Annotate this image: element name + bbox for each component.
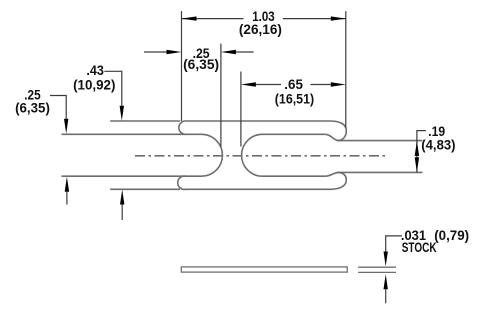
lower nose outer curve bbox=[330, 172, 346, 189]
svg-text:(26,16): (26,16) bbox=[239, 22, 282, 37]
arrowhead .19 up bbox=[415, 141, 419, 156]
right strip top edge bbox=[337, 140, 423, 142]
svg-text:.65: .65 bbox=[284, 77, 303, 92]
capsule top edge bbox=[263, 133, 326, 135]
big right-bulge arc bbox=[202, 134, 223, 176]
capsule left cap bbox=[242, 134, 263, 176]
dim line .25 top right tail bbox=[236, 51, 254, 53]
stock stub bottom bbox=[358, 271, 396, 273]
arrowhead .43 top bbox=[120, 106, 124, 121]
stock side view bbox=[181, 267, 396, 273]
svg-text:(10,92): (10,92) bbox=[73, 78, 115, 93]
centerline bbox=[135, 155, 386, 157]
leader .031 bbox=[386, 236, 402, 252]
arrowhead .65 left bbox=[241, 82, 256, 86]
arrowhead 1.03 left bbox=[182, 16, 197, 20]
upper middle edge left bbox=[62, 133, 202, 135]
part bottom outer edge left segment bbox=[110, 188, 180, 190]
extension line 1.03 left bbox=[181, 11, 183, 121]
svg-text:STOCK: STOCK bbox=[402, 240, 437, 255]
arrowhead .031 up bbox=[384, 274, 388, 289]
part top outer edge left segment bbox=[110, 120, 180, 122]
lower middle edge left bbox=[62, 175, 202, 177]
dim .19 corner bbox=[417, 131, 426, 173]
leader .25 left bbox=[50, 96, 66, 119]
svg-text:(4,83): (4,83) bbox=[421, 138, 455, 153]
stock bar bbox=[181, 267, 347, 272]
svg-text:(6,35): (6,35) bbox=[183, 57, 219, 72]
extension line .25 top right bbox=[220, 44, 222, 147]
dim line .65 bbox=[256, 84, 331, 86]
extension line 1.03/.65 right bbox=[345, 11, 347, 128]
arrowhead .19 down bbox=[415, 157, 419, 172]
dim line 1.03 bbox=[182, 18, 346, 20]
lower inner swoosh bbox=[325, 172, 339, 176]
capsule bottom edge bbox=[263, 175, 326, 177]
part bottom outer edge right segment bbox=[186, 188, 331, 190]
svg-text:.43: .43 bbox=[86, 63, 104, 78]
arrowhead .43 bottom bbox=[120, 190, 124, 205]
left fold cap bottom bbox=[178, 176, 186, 189]
arrowhead 1.03 right bbox=[331, 16, 346, 20]
arrowhead .65 right bbox=[331, 82, 346, 86]
arrowhead .031 down bbox=[384, 252, 388, 267]
arrowhead .25 left bottom bbox=[65, 177, 69, 192]
extension line .65 left bbox=[240, 72, 242, 147]
leader .031 bottom tail bbox=[385, 289, 387, 303]
upper inner swoosh bbox=[325, 134, 339, 140]
svg-text:(6,35): (6,35) bbox=[15, 101, 50, 116]
leader .25 left bottom tail bbox=[66, 192, 68, 205]
leader .43 bbox=[104, 71, 122, 106]
leader .43 bottom tail bbox=[121, 205, 123, 221]
arrowhead .25 top right bbox=[221, 50, 236, 54]
part top outer edge right segment bbox=[186, 120, 331, 122]
arrowhead .25 left top bbox=[64, 119, 68, 134]
dim line .25 top left tail bbox=[144, 51, 167, 53]
upper nose outer curve bbox=[330, 121, 346, 141]
right strip bottom edge bbox=[337, 171, 423, 173]
svg-text:(0,79): (0,79) bbox=[434, 228, 469, 243]
arrowhead .25 top left bbox=[167, 50, 182, 54]
stock stub top bbox=[358, 266, 396, 268]
left fold cap top bbox=[179, 121, 186, 134]
svg-text:(16,51): (16,51) bbox=[275, 92, 314, 107]
